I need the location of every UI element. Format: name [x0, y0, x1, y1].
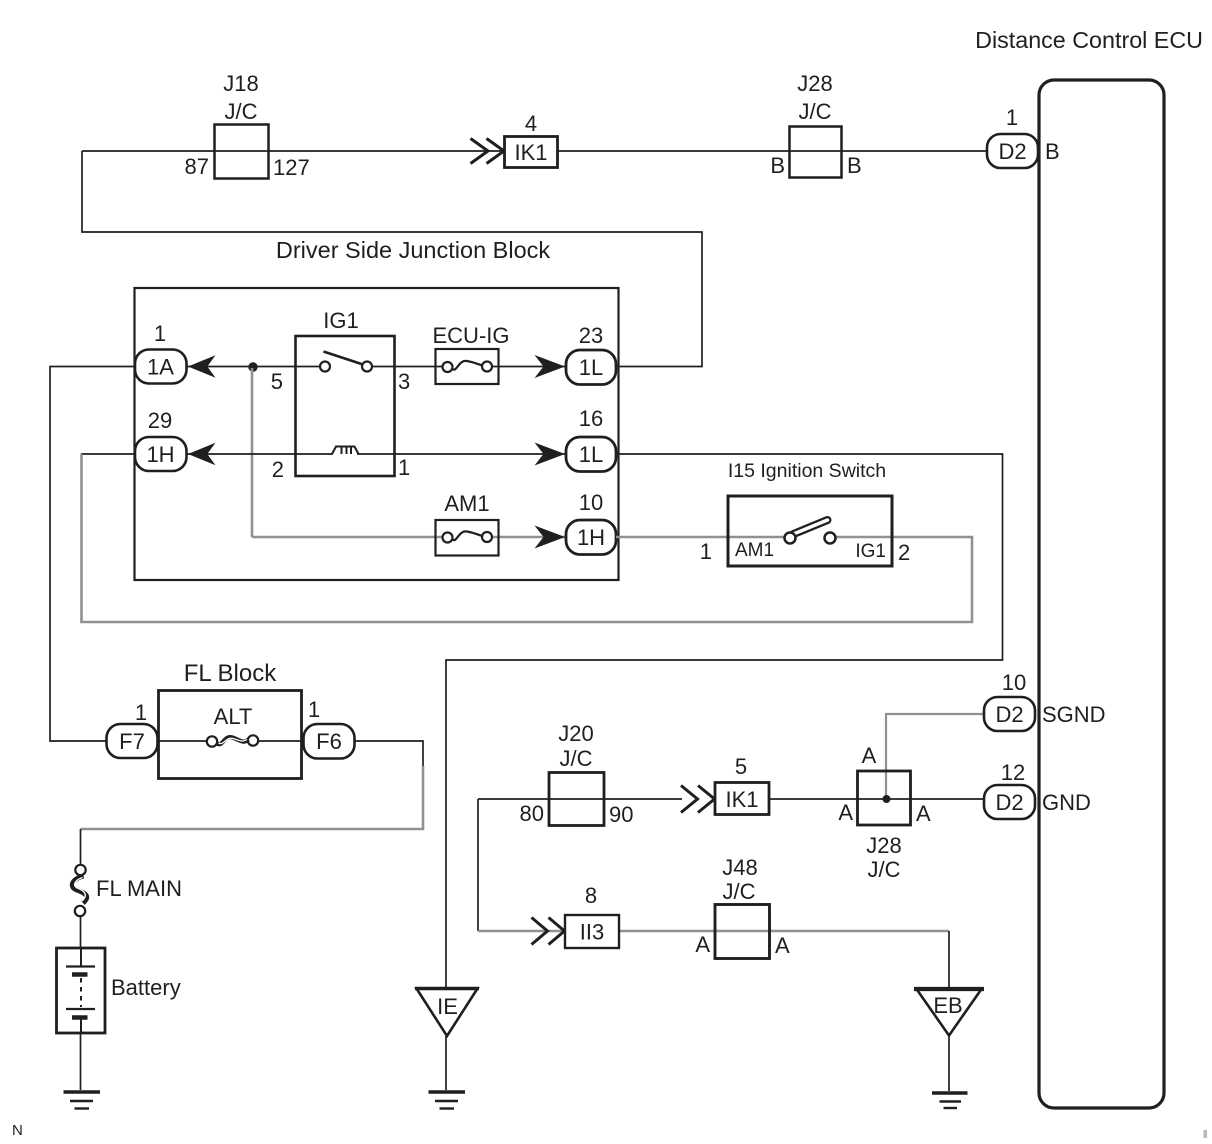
relay coil symbol — [332, 447, 359, 455]
svg-text:B: B — [770, 153, 785, 178]
svg-text:IG1: IG1 — [855, 541, 886, 562]
switch I15 contacts and blade — [785, 520, 836, 544]
svg-text:FL MAIN: FL MAIN — [96, 876, 182, 901]
svg-text:A: A — [916, 801, 931, 826]
connector J48 J/C box — [695, 855, 790, 959]
wire B+ left drop to y232 — [82, 151, 702, 367]
wire corner down to FL MAIN — [80, 829, 82, 865]
svg-text:29: 29 — [148, 408, 172, 433]
svg-text:2: 2 — [272, 457, 284, 482]
connector J20 J/C box — [520, 721, 634, 827]
oval F6 pin 1 — [304, 697, 355, 759]
ground EB triangle — [914, 989, 984, 1108]
connector J28 J/C box bottom — [838, 743, 931, 882]
oval 1L pin 16 — [566, 406, 616, 472]
svg-text:IG1: IG1 — [323, 308, 358, 333]
wire gray ignition switch return loop — [82, 454, 973, 622]
wire 1A to FL block F7 — [50, 367, 134, 742]
oval F7 pin 1 — [107, 700, 158, 758]
svg-text:90: 90 — [609, 802, 633, 827]
svg-text:Battery: Battery — [111, 975, 181, 1000]
fuse FL MAIN vertical — [72, 865, 182, 916]
switch I15 box — [700, 496, 911, 566]
wire row2 inside block — [186, 453, 333, 455]
svg-text:J48: J48 — [722, 855, 757, 880]
svg-text:J28: J28 — [866, 833, 901, 858]
svg-text:1L: 1L — [579, 355, 603, 380]
svg-text:5: 5 — [735, 754, 747, 779]
svg-text:16: 16 — [579, 406, 603, 431]
svg-text:2: 2 — [898, 540, 910, 565]
connector IK1 pin 4 — [505, 111, 558, 168]
arrow left row2 — [188, 443, 216, 465]
wire gray F6 drop and run left — [81, 766, 424, 829]
svg-text:D2: D2 — [995, 702, 1023, 727]
node junction dot J28 — [883, 795, 891, 803]
svg-text:1: 1 — [1006, 105, 1018, 130]
svg-text:12: 12 — [1001, 760, 1025, 785]
svg-text:1A: 1A — [147, 355, 174, 380]
svg-text:J18: J18 — [223, 71, 258, 96]
svg-text:J20: J20 — [558, 721, 593, 746]
svg-text:GND: GND — [1042, 790, 1091, 815]
svg-text:87: 87 — [185, 154, 209, 179]
wire chevron arrows to II3 — [532, 918, 565, 945]
svg-text:FL Block: FL Block — [184, 660, 277, 687]
connector J28 J/C box top — [770, 71, 861, 178]
svg-text:SGND: SGND — [1042, 702, 1106, 727]
oval 1H pin 29 — [135, 408, 187, 471]
wire GND drop left vertical — [477, 799, 479, 931]
ground battery — [64, 1092, 101, 1109]
svg-text:23: 23 — [579, 323, 603, 348]
svg-text:J28: J28 — [797, 71, 832, 96]
svg-text:II3: II3 — [580, 920, 604, 945]
svg-text:F7: F7 — [119, 729, 145, 754]
svg-text:4: 4 — [525, 111, 537, 136]
svg-text:ECU-IG: ECU-IG — [433, 323, 510, 348]
arrow left row1 — [188, 355, 216, 377]
oval 1H pin 10 — [566, 490, 616, 555]
wire gray SGND branch — [886, 714, 984, 796]
wire gray vertical from dot to AM1 row — [251, 368, 254, 537]
svg-text:1H: 1H — [146, 442, 174, 467]
svg-text:J/C: J/C — [560, 746, 593, 771]
relay switch contacts — [320, 352, 372, 372]
connector II3 pin 8 — [565, 883, 619, 948]
svg-text:EB: EB — [933, 993, 962, 1018]
svg-text:1: 1 — [398, 455, 410, 480]
svg-text:Driver Side Junction Block: Driver Side Junction Block — [276, 237, 551, 263]
svg-text:ALT: ALT — [214, 704, 253, 729]
svg-text:10: 10 — [579, 490, 603, 515]
oval 1A pin 1 — [135, 321, 187, 384]
arrow right row2 — [535, 443, 566, 466]
wire F7 to ALT fuse — [157, 740, 208, 742]
oval D2 pin 10 SGND — [984, 670, 1106, 731]
wire row2 29 1H out to left — [81, 453, 134, 455]
oval 1L pin 23 — [566, 323, 616, 385]
svg-text:A: A — [862, 743, 877, 768]
svg-text:AM1: AM1 — [735, 540, 774, 561]
wire chevron arrows to IK1 bottom — [681, 786, 715, 813]
svg-text:1: 1 — [308, 697, 320, 722]
svg-text:127: 127 — [273, 155, 310, 180]
svg-text:I15 Ignition Switch: I15 Ignition Switch — [728, 460, 886, 482]
wire EB vertical — [948, 931, 950, 989]
svg-text:F6: F6 — [316, 729, 342, 754]
wire row1 relay to ECU-IG fuse and 1L — [367, 366, 448, 368]
connector IK1 pin 5 — [715, 754, 769, 815]
node junction dot — [248, 362, 257, 371]
svg-text:3: 3 — [398, 369, 410, 394]
svg-text:8: 8 — [585, 883, 597, 908]
svg-text:1: 1 — [154, 321, 166, 346]
wire gray 1H10 to ignition switch — [616, 536, 786, 539]
ECU Distance Control box — [1039, 80, 1164, 1108]
svg-text:B: B — [847, 153, 862, 178]
wire row2 1L16 to right ECU side and IE drop — [446, 454, 1003, 989]
wire FL MAIN to battery — [80, 917, 82, 948]
oval D2 pin 12 GND — [984, 760, 1091, 819]
page artifact mark — [1204, 1130, 1208, 1138]
svg-text:A: A — [695, 932, 710, 957]
svg-text:A: A — [838, 800, 853, 825]
arrow right row1 — [535, 355, 566, 378]
svg-text:Distance Control ECU: Distance Control ECU — [975, 27, 1203, 53]
wire B+ main horizontal net — [82, 150, 987, 152]
fuse AM1 — [436, 491, 499, 556]
svg-text:5: 5 — [271, 369, 283, 394]
svg-text:N: N — [12, 1122, 23, 1139]
svg-text:1: 1 — [135, 700, 147, 725]
svg-text:A: A — [775, 933, 790, 958]
connector D2 pin 1 oval — [987, 105, 1060, 168]
svg-text:1: 1 — [700, 539, 712, 564]
junction block box — [135, 288, 619, 580]
svg-text:IE: IE — [437, 994, 458, 1019]
svg-text:IK1: IK1 — [514, 140, 547, 165]
svg-text:80: 80 — [520, 801, 544, 826]
connector J18 J/C box — [185, 71, 310, 180]
wire battery to ground — [80, 1033, 82, 1090]
svg-text:J/C: J/C — [799, 99, 832, 124]
relay IG1 box — [271, 308, 411, 482]
svg-text:10: 10 — [1002, 670, 1026, 695]
svg-text:IK1: IK1 — [725, 787, 758, 812]
wire gray II3 row — [478, 930, 949, 933]
wire F6 right to corner — [353, 741, 423, 768]
wire row1 1A to relay — [186, 366, 325, 368]
ground IE triangle — [415, 989, 479, 1109]
arrow right row3 — [535, 526, 566, 549]
svg-text:J/C: J/C — [225, 99, 258, 124]
fuse ECU-IG — [433, 323, 510, 384]
svg-text:D2: D2 — [998, 139, 1026, 164]
wire ALT fuse to F6 — [257, 740, 304, 742]
wire chevron arrows to IK1 — [471, 139, 505, 164]
svg-text:B: B — [1045, 139, 1060, 164]
battery — [57, 948, 181, 1033]
svg-text:1L: 1L — [579, 442, 603, 467]
svg-text:J/C: J/C — [723, 879, 756, 904]
svg-text:1H: 1H — [577, 525, 605, 550]
svg-text:J/C: J/C — [868, 857, 901, 882]
block FL box — [159, 691, 302, 779]
svg-text:D2: D2 — [995, 790, 1023, 815]
fuse ALT — [207, 704, 258, 747]
svg-text:AM1: AM1 — [444, 491, 489, 516]
wire row3 gray AM1 row — [252, 536, 448, 539]
wire GND row main — [478, 798, 682, 800]
